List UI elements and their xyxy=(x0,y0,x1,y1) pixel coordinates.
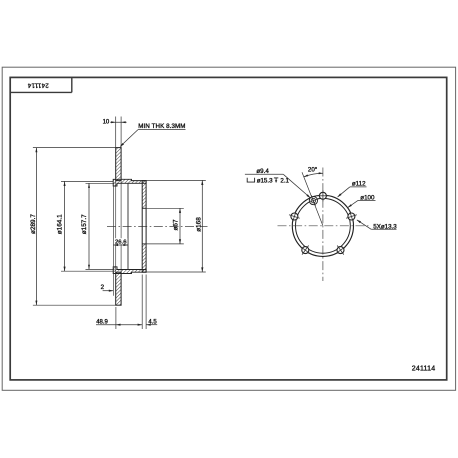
mounting bell wall (hatched, with ø67 hole gap) xyxy=(142,181,146,209)
20 degree radial line through ø9.4 hole xyxy=(302,172,323,226)
bolt hole 3 of 5Xø13.3 xyxy=(337,247,344,254)
svg-text:2.1: 2.1 xyxy=(280,178,289,185)
svg-text:ø9.4: ø9.4 xyxy=(256,168,269,175)
svg-text:20°: 20° xyxy=(308,167,318,174)
dimension ø157.7 xyxy=(86,182,115,184)
section axis centerline xyxy=(107,225,208,227)
end view vertical centerline xyxy=(322,168,324,282)
svg-text:ø164.1: ø164.1 xyxy=(56,214,63,234)
dimension ø168 xyxy=(146,179,206,181)
svg-text:ø289.7: ø289.7 xyxy=(30,214,37,234)
hat drum bottom wall with lip (hatched) xyxy=(113,267,146,274)
hat cavity bottom face edge xyxy=(127,183,129,269)
dimension ø67 xyxy=(146,207,184,209)
extension line from drum lip down to 2-dim xyxy=(112,186,114,296)
ø67 hole edge lines xyxy=(142,207,146,209)
svg-text:10: 10 xyxy=(103,120,110,126)
bolt hole 4 of 5Xø13.3 xyxy=(302,247,309,254)
svg-text:241114: 241114 xyxy=(27,82,49,89)
svg-text:241114: 241114 xyxy=(412,365,436,372)
dimension 26.6 xyxy=(114,238,127,244)
svg-text:MIN THK 8.3MM: MIN THK 8.3MM xyxy=(138,123,185,130)
20 degree angle dimension arc xyxy=(304,173,323,177)
dimension ø164.1 xyxy=(61,180,113,182)
inner border frame xyxy=(10,77,447,380)
svg-text:ø157.7: ø157.7 xyxy=(81,214,88,234)
svg-text:ø15.3: ø15.3 xyxy=(257,178,273,185)
locating hole ø9.4 with ø15.3 counterbore xyxy=(309,197,317,205)
hub inner circle ø100 xyxy=(296,198,351,253)
end view horizontal centerline xyxy=(278,225,369,227)
dimension ø289.7 xyxy=(33,147,116,149)
svg-text:2: 2 xyxy=(101,284,105,291)
outer border frame xyxy=(2,67,455,390)
bolt hole 1 of 5Xø13.3 xyxy=(319,192,326,199)
hat drum top wall with lip (hatched) xyxy=(113,179,146,186)
dimension 10 (rotor thickness) xyxy=(115,117,117,148)
hub outer circle ø112 xyxy=(292,195,353,256)
counterbore callout ⌴ ø15.3 depth 2.1 xyxy=(247,178,254,182)
title block box top-left xyxy=(71,77,73,92)
bolt hole 2 of 5Xø13.3 xyxy=(348,213,355,220)
rotor disc section (hatched, ø289.7 x 10) xyxy=(116,148,121,181)
bolt hole 5 of 5Xø13.3 xyxy=(291,213,298,220)
svg-text:ø168: ø168 xyxy=(196,217,203,232)
svg-text:ø67: ø67 xyxy=(173,219,180,230)
